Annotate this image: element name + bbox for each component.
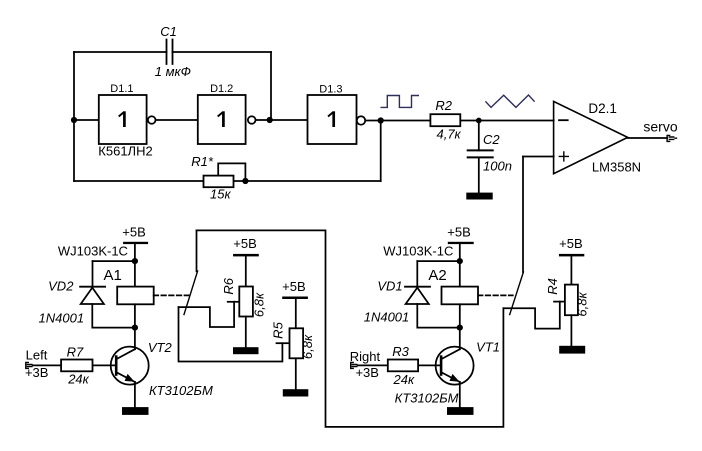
svg-text:1 мкФ: 1 мкФ <box>155 64 191 79</box>
svg-text:VT1: VT1 <box>476 340 500 355</box>
svg-text:D1.2: D1.2 <box>210 83 233 95</box>
svg-text:servo: servo <box>643 118 677 134</box>
svg-text:C1: C1 <box>160 24 177 39</box>
svg-text:Left: Left <box>26 348 48 363</box>
svg-text:VT2: VT2 <box>148 340 173 355</box>
svg-text:WJ103K-1C: WJ103K-1C <box>383 244 453 259</box>
svg-text:15к: 15к <box>210 187 231 202</box>
svg-text:R5: R5 <box>270 321 285 338</box>
svg-text:R2: R2 <box>435 98 452 113</box>
svg-text:A1: A1 <box>104 267 122 284</box>
svg-text:R4: R4 <box>545 278 560 295</box>
svg-text:R7: R7 <box>67 344 84 359</box>
svg-text:VD2: VD2 <box>48 279 74 294</box>
svg-text:+3В: +3В <box>355 365 379 380</box>
svg-text:КТ3102БМ: КТ3102БМ <box>149 383 213 398</box>
svg-text:+5В: +5В <box>122 225 146 240</box>
svg-text:4,7к: 4,7к <box>436 127 461 142</box>
svg-text:100n: 100n <box>483 159 512 174</box>
svg-text:6,8к: 6,8к <box>300 334 315 359</box>
svg-text:R1*: R1* <box>191 154 214 169</box>
svg-text:LM358N: LM358N <box>592 159 641 174</box>
svg-text:A2: A2 <box>428 267 446 284</box>
svg-text:+5В: +5В <box>233 236 257 251</box>
svg-text:+5В: +5В <box>559 236 583 251</box>
svg-text:R6: R6 <box>221 277 236 294</box>
svg-text:+5В: +5В <box>447 225 471 240</box>
svg-text:24к: 24к <box>392 372 414 387</box>
svg-text:6,8к: 6,8к <box>575 292 590 317</box>
svg-text:К561ЛН2: К561ЛН2 <box>98 144 152 159</box>
svg-text:Right: Right <box>350 349 381 364</box>
svg-text:D2.1: D2.1 <box>588 101 617 116</box>
svg-text:WJ103K-1C: WJ103K-1C <box>58 244 128 259</box>
svg-text:VD1: VD1 <box>377 279 402 294</box>
svg-text:+3В: +3В <box>25 365 49 380</box>
svg-text:6,8к: 6,8к <box>251 292 266 317</box>
svg-text:C2: C2 <box>483 132 500 147</box>
svg-text:КТ3102БМ: КТ3102БМ <box>395 391 459 406</box>
svg-text:1N4001: 1N4001 <box>364 310 410 325</box>
svg-text:24к: 24к <box>67 372 89 387</box>
svg-text:+5В: +5В <box>282 279 306 294</box>
svg-text:R3: R3 <box>392 344 409 359</box>
svg-text:1N4001: 1N4001 <box>39 311 85 326</box>
svg-text:D1.1: D1.1 <box>110 83 133 95</box>
svg-text:D1.3: D1.3 <box>319 84 342 96</box>
